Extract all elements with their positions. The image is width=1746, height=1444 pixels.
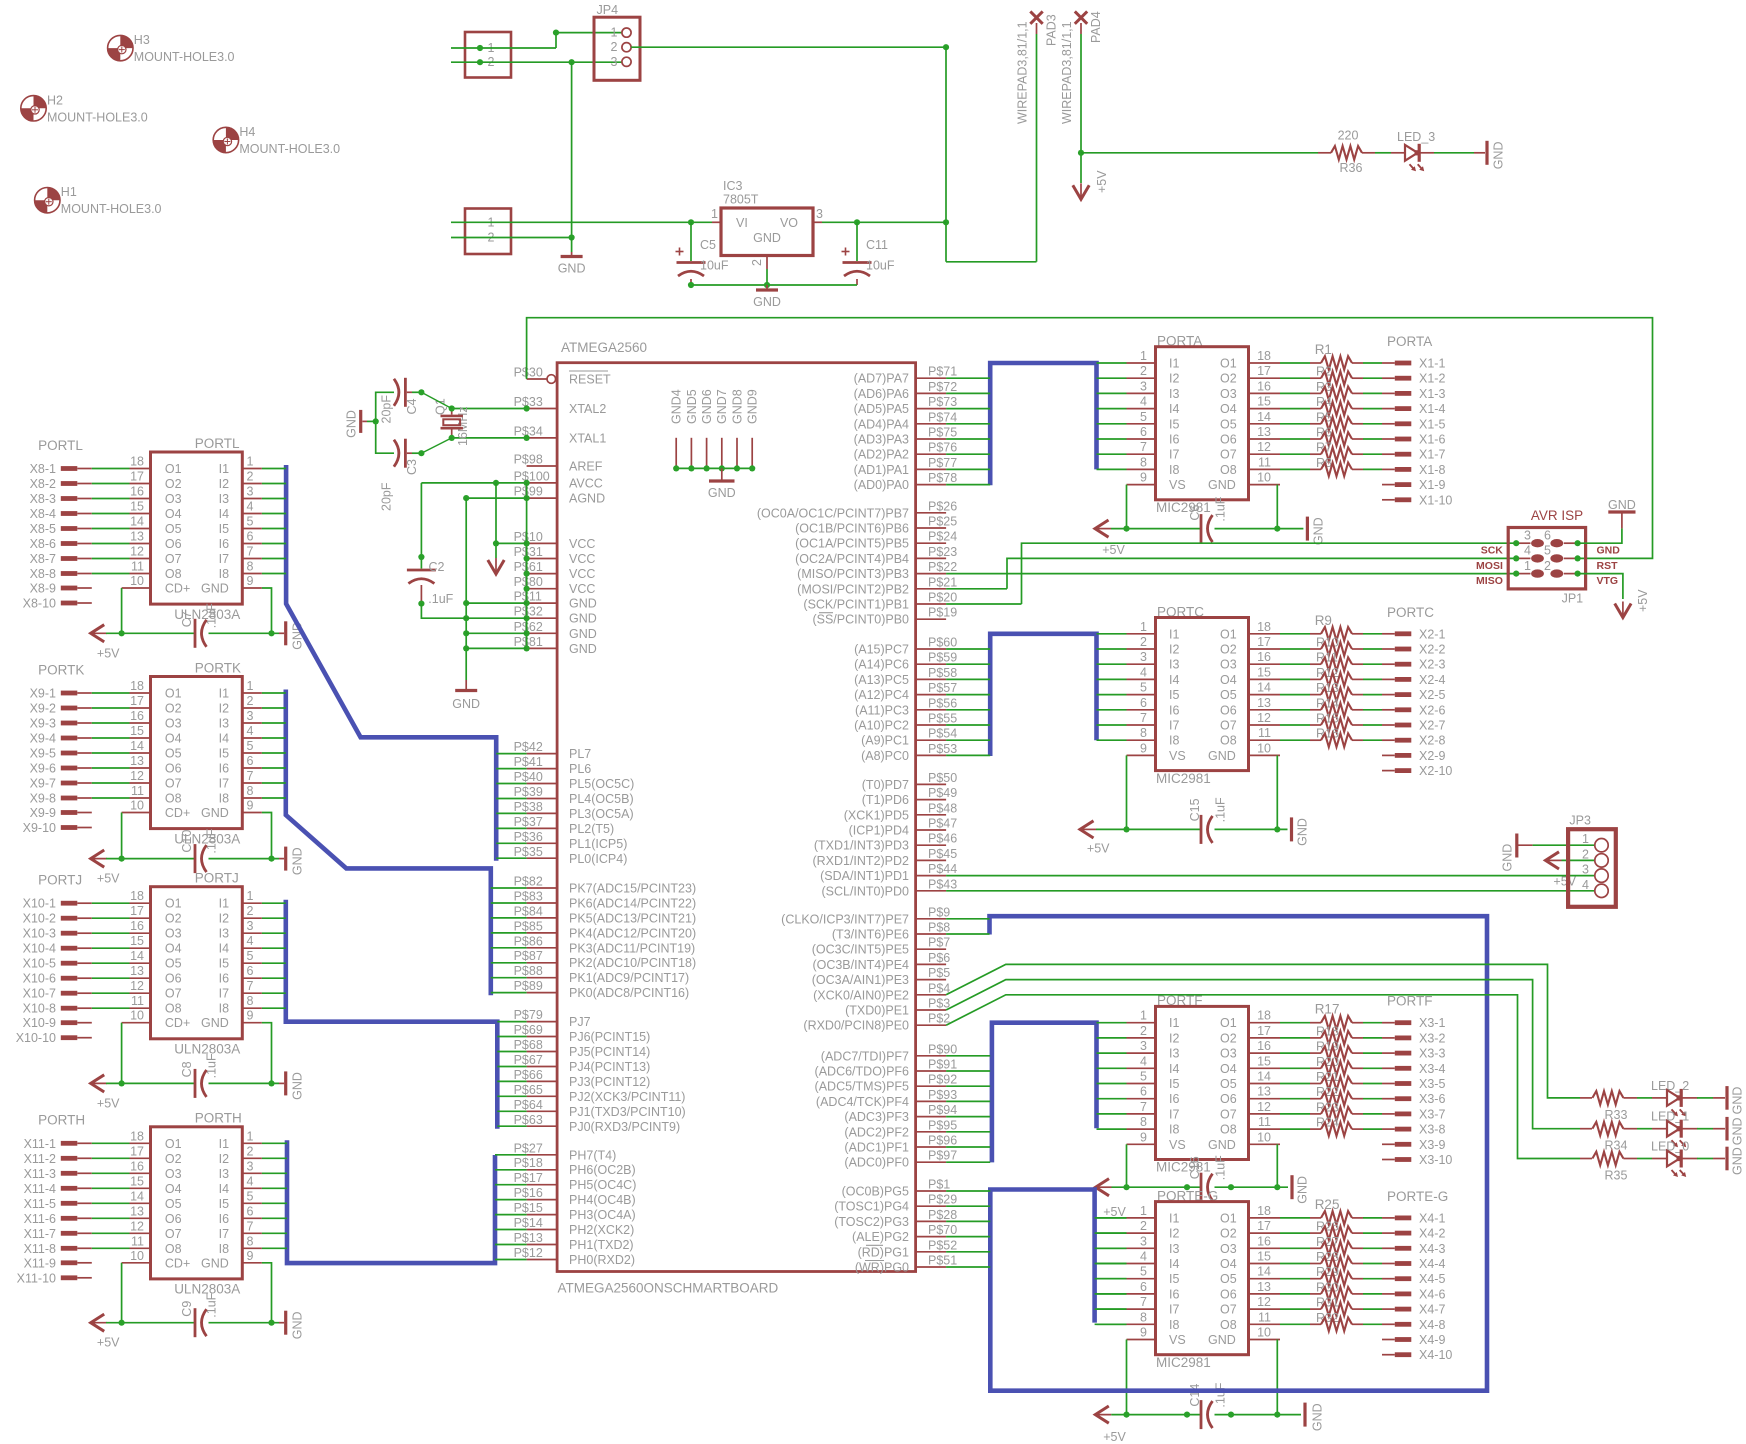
wire xyxy=(946,709,990,711)
pad X11-7 xyxy=(24,1227,92,1241)
pin 2 xyxy=(242,904,262,918)
svg-text:VCC: VCC xyxy=(569,567,595,581)
svg-text:(OC1B/PCINT6)PB6: (OC1B/PCINT6)PB6 xyxy=(795,522,909,536)
pad X1-7 xyxy=(1395,448,1446,462)
wire xyxy=(1112,1186,1202,1188)
pin P$81 GND xyxy=(514,635,597,656)
pad X1-10 xyxy=(1382,493,1452,507)
resistor R4 xyxy=(1280,395,1395,415)
bus PORTA xyxy=(990,363,1096,485)
pin 8 xyxy=(242,560,262,574)
svg-text:C11: C11 xyxy=(866,238,888,252)
junction xyxy=(764,282,770,288)
wire xyxy=(451,237,572,239)
svg-text:PORTC: PORTC xyxy=(1387,605,1434,620)
pin 3 xyxy=(1127,379,1156,393)
svg-text:X8-3: X8-3 xyxy=(30,492,56,506)
pin 14 xyxy=(1249,1265,1281,1279)
svg-text:(A8)PC0: (A8)PC0 xyxy=(861,749,909,763)
bus PORTH xyxy=(287,1140,495,1263)
svg-text:R22: R22 xyxy=(1316,1085,1339,1099)
pad X2-9 xyxy=(1382,749,1445,763)
pin 7 xyxy=(242,545,262,559)
wire xyxy=(1434,152,1474,154)
pin P$91 (ADC6/TDO)PF6 xyxy=(815,1058,958,1079)
svg-text:O5: O5 xyxy=(165,1197,182,1211)
svg-text:I6: I6 xyxy=(219,537,229,551)
svg-text:PORTJ: PORTJ xyxy=(38,873,82,888)
svg-text:X8-4: X8-4 xyxy=(30,507,56,521)
pad X9-10 xyxy=(23,821,92,835)
supply +5V xyxy=(1095,1406,1111,1423)
connector JP3 xyxy=(1568,814,1616,907)
svg-text:15: 15 xyxy=(1257,1054,1271,1068)
pad X11-10 xyxy=(17,1271,92,1285)
svg-text:O7: O7 xyxy=(165,552,182,566)
resistor R16 xyxy=(1280,727,1395,747)
svg-text:I7: I7 xyxy=(1169,1107,1179,1121)
svg-text:X9-9: X9-9 xyxy=(30,806,56,820)
svg-text:18: 18 xyxy=(1257,1204,1271,1218)
capacitor C15 .1uF xyxy=(1188,797,1227,844)
svg-text:O7: O7 xyxy=(1220,719,1237,733)
pin P$68 PJ5(PCINT14) xyxy=(514,1038,651,1059)
svg-text:3: 3 xyxy=(816,207,823,221)
svg-text:14: 14 xyxy=(1257,681,1271,695)
svg-text:PJ6(PCINT15): PJ6(PCINT15) xyxy=(569,1030,650,1044)
wire xyxy=(92,513,130,515)
pin 2 xyxy=(1127,1024,1156,1038)
svg-text:8: 8 xyxy=(1140,1115,1147,1129)
pad X10-6 xyxy=(23,972,92,986)
pin P$85 PK4(ADC12/PCINT20) xyxy=(514,919,697,940)
svg-text:11: 11 xyxy=(1258,455,1271,469)
svg-text:I1: I1 xyxy=(1169,1211,1179,1225)
wire xyxy=(946,933,989,935)
svg-text:X10-4: X10-4 xyxy=(23,942,56,956)
svg-text:P$12: P$12 xyxy=(514,1246,543,1260)
svg-text:P$53: P$53 xyxy=(928,742,957,756)
junction xyxy=(524,615,530,621)
svg-text:(OC0A/OC1C/PCINT7)PB7: (OC0A/OC1C/PCINT7)PB7 xyxy=(757,506,909,520)
svg-text:(ALE)PG2: (ALE)PG2 xyxy=(852,1230,909,1244)
pin GND9 xyxy=(746,389,760,468)
resistor R24 xyxy=(1280,1116,1395,1136)
mount hole H2 xyxy=(21,93,148,124)
wire xyxy=(1562,859,1596,861)
svg-text:P$29: P$29 xyxy=(928,1193,957,1207)
wire xyxy=(262,588,272,633)
svg-text:X4-6: X4-6 xyxy=(1419,1287,1445,1301)
svg-text:3: 3 xyxy=(611,55,618,69)
supply +5V xyxy=(91,1075,120,1111)
pin 3 xyxy=(1127,1234,1156,1248)
wire xyxy=(1215,1186,1289,1188)
svg-text:GND: GND xyxy=(569,612,597,626)
wire xyxy=(491,917,527,919)
svg-text:X9-2: X9-2 xyxy=(30,702,56,716)
svg-text:4: 4 xyxy=(247,1174,254,1188)
svg-text:1: 1 xyxy=(711,207,718,221)
bus PORTK xyxy=(286,690,491,996)
junction xyxy=(1274,826,1280,832)
svg-text:O8: O8 xyxy=(1220,1318,1237,1332)
svg-text:P$26: P$26 xyxy=(928,499,957,513)
wire xyxy=(946,964,1580,1098)
svg-text:I1: I1 xyxy=(219,897,229,911)
junction xyxy=(1575,540,1581,546)
svg-text:O3: O3 xyxy=(1220,1047,1237,1061)
resistor R33 xyxy=(1580,1091,1637,1122)
svg-text:P$75: P$75 xyxy=(928,426,957,440)
pin P$92 (ADC5/TMS)PF5 xyxy=(815,1073,958,1094)
pin 3 xyxy=(1127,1039,1156,1053)
pin 12 xyxy=(1249,711,1281,725)
svg-text:P$87: P$87 xyxy=(514,949,543,963)
svg-text:+5V: +5V xyxy=(1095,170,1109,193)
svg-text:O7: O7 xyxy=(1220,448,1237,462)
svg-text:X9-4: X9-4 xyxy=(30,732,56,746)
pin P$8 (T3/INT6)PE6 xyxy=(832,921,950,942)
svg-text:13: 13 xyxy=(130,964,144,978)
svg-text:X9-7: X9-7 xyxy=(30,777,56,791)
pin 8 xyxy=(242,994,262,1008)
svg-text:GND: GND xyxy=(569,627,597,641)
svg-text:(WR)PG0: (WR)PG0 xyxy=(855,1261,909,1275)
junction xyxy=(719,465,725,471)
wire xyxy=(92,1142,130,1144)
svg-text:+5V: +5V xyxy=(97,872,120,886)
wire xyxy=(209,1322,280,1324)
wire xyxy=(1097,1247,1127,1249)
svg-text:X1-3: X1-3 xyxy=(1419,387,1445,401)
svg-text:O5: O5 xyxy=(165,522,182,536)
wire xyxy=(262,528,286,530)
pin 1 xyxy=(242,1129,262,1143)
pin P$57 (A12)PC4 xyxy=(854,681,957,702)
svg-text:(AD4)PA4: (AD4)PA4 xyxy=(854,417,909,431)
pin P$72 (AD6)PA6 xyxy=(854,380,958,401)
wire xyxy=(1215,528,1304,530)
junction xyxy=(524,645,530,651)
wire xyxy=(92,498,130,500)
svg-text:10: 10 xyxy=(1257,471,1271,485)
svg-text:.1uF: .1uF xyxy=(205,828,219,853)
wire xyxy=(495,1259,527,1261)
wire xyxy=(92,737,130,739)
pin P$9 (CLKO/ICP3/INT7)PE7 xyxy=(781,905,950,926)
supply +5V xyxy=(1073,170,1109,200)
svg-text:R31: R31 xyxy=(1316,1296,1339,1310)
wire xyxy=(946,423,990,425)
pin 17 xyxy=(1249,364,1281,378)
svg-text:MOSI: MOSI xyxy=(1476,560,1503,572)
svg-text:P$69: P$69 xyxy=(514,1023,543,1037)
junction xyxy=(1123,826,1129,832)
pin P$60 (A15)PC7 xyxy=(854,636,957,657)
svg-text:17: 17 xyxy=(130,1144,144,1158)
pin P$83 PK6(ADC14/PCINT22) xyxy=(514,890,697,911)
svg-text:X1-2: X1-2 xyxy=(1419,372,1445,386)
IC PORTJ ULN2803A xyxy=(151,871,243,1057)
svg-text:O7: O7 xyxy=(165,987,182,1001)
wire xyxy=(262,707,286,709)
pin 9 xyxy=(1127,741,1156,755)
svg-text:2: 2 xyxy=(611,40,618,54)
svg-text:14: 14 xyxy=(130,515,144,529)
svg-text:17: 17 xyxy=(130,470,144,484)
svg-text:17: 17 xyxy=(130,904,144,918)
svg-text:5: 5 xyxy=(1140,410,1147,424)
wire xyxy=(1097,1308,1127,1310)
svg-text:16: 16 xyxy=(1257,379,1271,393)
svg-text:X4-7: X4-7 xyxy=(1419,1303,1445,1317)
pin 12 xyxy=(1249,1295,1281,1309)
svg-text:SCK: SCK xyxy=(1481,545,1504,557)
svg-text:PJ1(TXD3/PCINT10): PJ1(TXD3/PCINT10) xyxy=(569,1105,686,1119)
pin 2 xyxy=(242,470,262,484)
pin P$94 (ADC3)PF3 xyxy=(844,1103,957,1124)
capacitor C11 10uF xyxy=(842,222,895,285)
svg-text:R26: R26 xyxy=(1316,1220,1339,1234)
wire xyxy=(1697,1158,1713,1160)
svg-text:1: 1 xyxy=(1140,1009,1147,1023)
svg-text:8: 8 xyxy=(1140,726,1147,740)
wire xyxy=(262,752,286,754)
junction xyxy=(1123,526,1129,532)
svg-text:12: 12 xyxy=(130,769,144,783)
pin P$40 PL5(OC5C) xyxy=(514,770,635,791)
svg-text:JP4: JP4 xyxy=(597,3,619,17)
pad X9-9 xyxy=(30,806,92,820)
svg-text:8: 8 xyxy=(247,560,254,574)
capacitor C7 .1uF xyxy=(180,603,219,648)
svg-text:X2-1: X2-1 xyxy=(1419,627,1445,641)
pad X9-3 xyxy=(30,717,92,731)
svg-text:P$36: P$36 xyxy=(514,830,543,844)
svg-text:X10-1: X10-1 xyxy=(23,897,56,911)
ground xyxy=(1713,1086,1745,1114)
svg-text:X2-3: X2-3 xyxy=(1419,658,1445,672)
wire xyxy=(1533,844,1595,846)
wire xyxy=(92,902,130,904)
supply +5V xyxy=(1095,520,1111,537)
svg-text:PORTH: PORTH xyxy=(195,1111,242,1126)
pad X9-7 xyxy=(30,777,92,791)
svg-text:X11-3: X11-3 xyxy=(24,1167,56,1181)
svg-text:I8: I8 xyxy=(1169,1123,1179,1137)
svg-text:X9-3: X9-3 xyxy=(30,717,56,731)
svg-text:+5V: +5V xyxy=(1103,1205,1126,1219)
svg-text:P$94: P$94 xyxy=(928,1103,957,1117)
svg-text:GND: GND xyxy=(1608,498,1636,512)
svg-text:4: 4 xyxy=(1140,1250,1147,1264)
resistor R21 xyxy=(1280,1070,1395,1090)
svg-text:1: 1 xyxy=(1140,349,1147,363)
capacitor C14 .1uF xyxy=(1188,1382,1227,1429)
pad X10-4 xyxy=(23,942,92,956)
svg-text:I8: I8 xyxy=(219,792,229,806)
svg-text:13: 13 xyxy=(130,530,144,544)
wire xyxy=(1097,678,1127,680)
svg-text:GND4: GND4 xyxy=(670,389,684,424)
svg-text:I8: I8 xyxy=(1169,734,1179,748)
junction xyxy=(463,645,469,651)
svg-text:R34: R34 xyxy=(1605,1139,1628,1153)
wire xyxy=(262,1142,287,1144)
pad X4-2 xyxy=(1395,1227,1446,1241)
svg-text:RESET: RESET xyxy=(569,373,611,387)
resistor R35 xyxy=(1580,1152,1637,1183)
pin 14 xyxy=(130,515,151,529)
wire xyxy=(946,453,990,455)
svg-text:X9-6: X9-6 xyxy=(30,762,56,776)
svg-text:PH0(RXD2): PH0(RXD2) xyxy=(569,1253,635,1267)
svg-text:VO: VO xyxy=(780,216,798,230)
IC PORTC MIC2981 xyxy=(1156,604,1249,786)
svg-text:P$39: P$39 xyxy=(514,785,543,799)
pin P$18 PH6(OC2B) xyxy=(514,1156,636,1177)
wire xyxy=(946,663,990,665)
svg-text:P$5: P$5 xyxy=(928,966,950,980)
svg-text:X2-10: X2-10 xyxy=(1419,764,1452,778)
svg-text:AVR ISP: AVR ISP xyxy=(1531,508,1583,523)
pin P$99 AGND xyxy=(514,485,606,506)
resistor R23 xyxy=(1280,1100,1395,1120)
resistor R6 xyxy=(1280,426,1395,446)
resistor R11 xyxy=(1280,651,1395,671)
wire xyxy=(1097,423,1127,425)
wire xyxy=(496,827,526,829)
wire xyxy=(491,902,527,904)
IC PORTK ULN2803A xyxy=(151,660,243,846)
svg-text:9: 9 xyxy=(1140,1130,1147,1144)
wire xyxy=(946,1116,990,1118)
svg-text:CD+: CD+ xyxy=(165,1256,190,1270)
wire xyxy=(946,724,990,726)
wire xyxy=(451,47,556,49)
svg-text:X8-5: X8-5 xyxy=(30,522,56,536)
svg-text:PORTJ: PORTJ xyxy=(195,871,239,886)
svg-text:P$38: P$38 xyxy=(514,800,543,814)
wire xyxy=(946,377,990,379)
svg-text:GND5: GND5 xyxy=(685,389,699,424)
pad X1-3 xyxy=(1395,387,1446,401)
wire xyxy=(1097,392,1127,394)
svg-text:GND: GND xyxy=(1296,818,1310,846)
svg-text:X10-8: X10-8 xyxy=(23,1002,56,1016)
pin 8 xyxy=(1127,1310,1156,1324)
svg-text:GND6: GND6 xyxy=(700,389,714,424)
wire xyxy=(1126,1144,1128,1187)
resistor R22 xyxy=(1280,1085,1395,1105)
svg-text:I3: I3 xyxy=(1169,387,1179,401)
svg-text:PH3(OC4A): PH3(OC4A) xyxy=(569,1208,636,1222)
svg-text:Q1: Q1 xyxy=(434,398,448,415)
pin 5 xyxy=(242,949,262,963)
svg-text:3: 3 xyxy=(1140,1234,1147,1248)
wire xyxy=(1097,468,1127,470)
wire xyxy=(946,648,990,650)
svg-text:(AD7)PA7: (AD7)PA7 xyxy=(854,372,909,386)
svg-text:10: 10 xyxy=(130,574,144,588)
svg-text:O1: O1 xyxy=(165,462,182,476)
svg-text:R17: R17 xyxy=(1315,1002,1340,1017)
pin 7 xyxy=(242,769,262,783)
wire xyxy=(1276,485,1278,529)
wire xyxy=(106,1082,195,1084)
wire xyxy=(946,1236,990,1238)
pad X3-1 xyxy=(1395,1016,1446,1030)
svg-text:I7: I7 xyxy=(1169,1303,1179,1317)
svg-text:X3-7: X3-7 xyxy=(1419,1107,1445,1121)
pin 11 xyxy=(1249,1310,1281,1324)
ground xyxy=(558,238,586,276)
wire xyxy=(262,1157,287,1159)
pin 7 xyxy=(242,979,262,993)
svg-text:C5: C5 xyxy=(700,238,716,252)
svg-text:P$82: P$82 xyxy=(514,875,543,889)
svg-text:X4-9: X4-9 xyxy=(1419,1333,1445,1347)
wire xyxy=(262,1187,287,1189)
svg-text:4: 4 xyxy=(1524,544,1531,558)
wire xyxy=(1097,1293,1127,1295)
svg-text:X10-2: X10-2 xyxy=(23,912,56,926)
svg-text:(T0)PD7: (T0)PD7 xyxy=(862,778,909,792)
wire xyxy=(1096,828,1201,830)
pin 14 xyxy=(130,1189,151,1203)
junction xyxy=(1123,1412,1129,1418)
svg-text:2: 2 xyxy=(1140,1024,1147,1038)
svg-text:VCC: VCC xyxy=(569,552,595,566)
pin 5 xyxy=(242,739,262,753)
wire xyxy=(262,962,286,964)
svg-text:X4-2: X4-2 xyxy=(1419,1227,1445,1241)
svg-text:O5: O5 xyxy=(1220,1272,1237,1286)
svg-text:I7: I7 xyxy=(219,777,229,791)
svg-text:X9-8: X9-8 xyxy=(30,792,56,806)
svg-text:C10: C10 xyxy=(180,830,194,853)
pin P$50 (T0)PD7 xyxy=(862,771,957,792)
ground xyxy=(1713,1117,1745,1145)
svg-text:MOUNT-HOLE3.0: MOUNT-HOLE3.0 xyxy=(239,142,340,156)
svg-text:X1-5: X1-5 xyxy=(1419,417,1445,431)
wire xyxy=(92,797,130,799)
pin P$43 (SCL/INT0)PD0 xyxy=(821,877,957,898)
regulator IC3 7805T xyxy=(711,179,823,285)
wire xyxy=(92,707,130,709)
svg-text:I3: I3 xyxy=(219,492,229,506)
svg-text:(OC1A/PCINT5)PB5: (OC1A/PCINT5)PB5 xyxy=(795,537,909,551)
wire xyxy=(1578,528,1622,543)
svg-text:MIC2981: MIC2981 xyxy=(1156,1355,1211,1370)
pin 12 xyxy=(130,1219,151,1233)
pin 13 xyxy=(1249,425,1281,439)
pad X2-1 xyxy=(1395,627,1446,641)
pad X8-3 xyxy=(30,492,92,506)
svg-text:GND: GND xyxy=(1501,844,1515,872)
svg-text:O8: O8 xyxy=(1220,734,1237,748)
svg-text:I6: I6 xyxy=(1169,433,1179,447)
svg-text:I2: I2 xyxy=(1169,1227,1179,1241)
svg-text:(OC2A/PCINT4)PB4: (OC2A/PCINT4)PB4 xyxy=(795,552,909,566)
svg-text:P$52: P$52 xyxy=(928,1238,957,1252)
svg-text:P$42: P$42 xyxy=(514,740,543,754)
svg-text:P$54: P$54 xyxy=(928,727,957,741)
pin P$37 PL2(T5) xyxy=(514,815,615,836)
wire xyxy=(1097,633,1127,635)
pad X8-10 xyxy=(23,597,92,611)
